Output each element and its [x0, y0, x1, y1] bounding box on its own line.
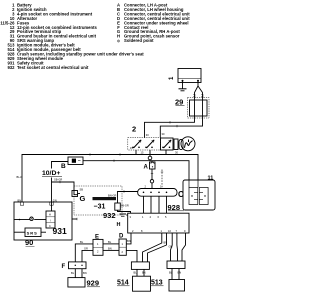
branch wire to ground terminal G: [52, 181, 79, 195]
combined instrument box: [14, 202, 72, 240]
svg-text:SRS: SRS: [27, 231, 38, 236]
svg-text:1: 1: [97, 242, 99, 246]
ignition module 514 connector: [131, 262, 149, 276]
svg-text:BN: BN: [83, 271, 87, 275]
svg-text:2: 2: [97, 250, 99, 254]
instrument right edge stub: [72, 218, 77, 220]
svg-text:BL: BL: [71, 271, 75, 275]
main supply wire run1: [22, 153, 198, 202]
svg-text:1: 1: [142, 215, 144, 219]
ignition module 513: [169, 280, 185, 292]
svg-text:1: 1: [122, 242, 124, 246]
wires crash sensor to 514 connector: [143, 233, 167, 262]
fusebox 11 label: [208, 176, 214, 182]
ignition module 513 connector: [167, 261, 185, 280]
ignition module 513 label: [151, 280, 164, 287]
svg-text:931: 931: [53, 226, 67, 236]
svg-text:BL: BL: [169, 270, 173, 274]
svg-text:Test socket at central electri: Test socket at central electrical unit: [17, 65, 89, 70]
positive terminal strip 29: [188, 98, 210, 119]
svg-text:H: H: [117, 222, 121, 228]
svg-text:10/D+: 10/D+: [42, 170, 60, 177]
ground point H: [120, 214, 128, 216]
svg-text:7: 7: [176, 229, 178, 233]
connector shape after fuse: [179, 140, 183, 150]
svg-text:1: 1: [169, 76, 175, 80]
battery 1: [178, 69, 201, 83]
test socket 932: [115, 190, 138, 210]
svg-text:BN: BN: [18, 198, 22, 202]
svg-text:5: 5: [165, 215, 167, 219]
legend left column text: [17, 3, 144, 70]
svg-text:514: 514: [117, 280, 129, 287]
crash sensor pin numbers top: [130, 215, 168, 219]
svg-text:SB-GR: SB-GR: [121, 204, 129, 208]
svg-text:2: 2: [122, 250, 124, 254]
instrument pin labels: [18, 198, 57, 202]
svg-text:513: 513: [151, 280, 163, 287]
wire labels E left: [80, 240, 88, 251]
open connector point below run1: [148, 155, 152, 160]
svg-text:15: 15: [141, 151, 144, 155]
contact reel F: [69, 262, 87, 269]
connector C strip: [138, 189, 177, 197]
crash sensor 928 label: [168, 203, 185, 212]
svg-text:BL-R: BL-R: [17, 175, 23, 179]
svg-text:BL: BL: [108, 240, 112, 244]
test connectors box: [183, 180, 215, 210]
connector A: [150, 161, 156, 180]
svg-text:BN-GR: BN-GR: [108, 194, 116, 198]
connector 514 labels: [134, 270, 146, 274]
svg-text:30: 30: [162, 132, 165, 136]
ignition switch 2: [128, 138, 161, 150]
connector 513 labels: [169, 270, 181, 274]
svg-text:H: H: [49, 213, 51, 217]
svg-text:BN: BN: [164, 241, 168, 245]
svg-text:BL: BL: [134, 270, 138, 274]
svg-text:C: C: [49, 224, 51, 228]
svg-text:10: 10: [168, 229, 171, 233]
connector E pin numbers: [97, 242, 99, 253]
svg-text:GN: GN: [169, 245, 173, 249]
wires F to steering wheel module: [75, 269, 82, 278]
svg-text:Soldered point: Soldered point: [124, 38, 154, 43]
HIC pin letters: [49, 213, 51, 229]
svg-text:2: 2: [132, 125, 136, 134]
ignition module 514 label: [117, 280, 130, 287]
connector E: [93, 239, 103, 255]
ground terminal G: [72, 191, 80, 197]
wire 29 to ignition switch pin 30 (upper): [145, 116, 195, 138]
C strip pin numbers: [145, 184, 163, 188]
svg-text:A: A: [144, 164, 149, 170]
crash sensor 928: [128, 213, 189, 233]
wire labels E-D: [108, 240, 112, 251]
svg-text:BL: BL: [80, 240, 84, 244]
connector D: [119, 239, 126, 255]
ground busbar 31: [93, 197, 117, 200]
wires crash sensor to 513 connector: [171, 233, 186, 261]
svg-text:G: G: [80, 194, 86, 203]
svg-text:−31: −31: [94, 203, 106, 210]
battery negative terminal ground: [179, 82, 187, 91]
central electrical unit boundary: [74, 186, 122, 215]
wires C strip to crash sensor: [144, 196, 167, 213]
ignition switch contact box: [161, 138, 174, 150]
ignition module 514: [133, 276, 151, 291]
svg-text:932: 932: [7, 65, 15, 70]
connector D pin numbers: [122, 242, 124, 254]
legend soldered point symbol: [117, 40, 119, 42]
svg-text:2: 2: [132, 229, 134, 233]
svg-text:8: 8: [141, 229, 143, 233]
svg-text:BN: BN: [127, 239, 131, 243]
wire socket to crash sensor: [118, 210, 131, 213]
steering wheel module 929: [68, 278, 85, 287]
connector B: [68, 157, 83, 165]
wire 10/D+ via connector B run2: [52, 160, 190, 203]
svg-text:F: F: [62, 264, 66, 270]
svg-text:BN: BN: [142, 270, 146, 274]
legend right column letters: [117, 3, 120, 39]
legend right column text: [124, 3, 190, 44]
wire labels at crash sensor bottom: [164, 241, 173, 249]
svg-text:2: 2: [145, 184, 147, 188]
legend left column numbers: [0, 3, 15, 70]
svg-text:6: 6: [158, 215, 160, 219]
svg-text:90: 90: [25, 238, 33, 247]
svg-text:SB-GR: SB-GR: [54, 178, 62, 182]
fuse: [174, 139, 178, 150]
drop wire from ignition contact to strip: [161, 170, 163, 189]
svg-text:H: H: [117, 34, 120, 39]
SRS warning lamp 90 label: [25, 238, 35, 247]
wires E to D: [103, 244, 119, 251]
svg-text:932: 932: [103, 211, 116, 220]
wire D to crash sensor pin: [126, 233, 131, 244]
wire 29 to ignition switch (lower): [160, 116, 202, 138]
svg-text:30: 30: [146, 133, 149, 137]
ignition switch bottom pin stubs: [136, 150, 166, 155]
svg-text:3: 3: [130, 215, 132, 219]
svg-text:BN: BN: [178, 270, 182, 274]
instrument connector HIC: [46, 202, 55, 228]
wire D to module connector 514: [126, 250, 137, 262]
svg-text:BN: BN: [108, 247, 112, 251]
svg-text:GN: GN: [53, 198, 57, 202]
svg-text:1: 1: [161, 229, 163, 233]
open connector point under A: [150, 180, 153, 189]
svg-text:I: I: [50, 218, 51, 222]
svg-text:9: 9: [184, 229, 186, 233]
ignition key symbol: [181, 137, 195, 151]
wires E to contact reel F: [75, 244, 93, 262]
SRS lamp legend box: [14, 228, 46, 237]
svg-text:29: 29: [175, 97, 183, 106]
svg-text:B: B: [61, 163, 66, 170]
svg-text:30: 30: [175, 151, 178, 155]
steering wheel module 929 label: [87, 279, 101, 288]
svg-text:929: 929: [87, 279, 100, 288]
SRS warning lamp 90: [14, 217, 46, 221]
svg-text:11: 11: [208, 176, 214, 182]
wire labels F bottom: [71, 271, 87, 275]
svg-text:4: 4: [150, 215, 152, 219]
svg-text:SB: SB: [80, 187, 84, 191]
battery positive wires: [193, 82, 204, 101]
crash sensor pin numbers bottom: [132, 229, 186, 233]
svg-text:GR: GR: [84, 247, 88, 251]
